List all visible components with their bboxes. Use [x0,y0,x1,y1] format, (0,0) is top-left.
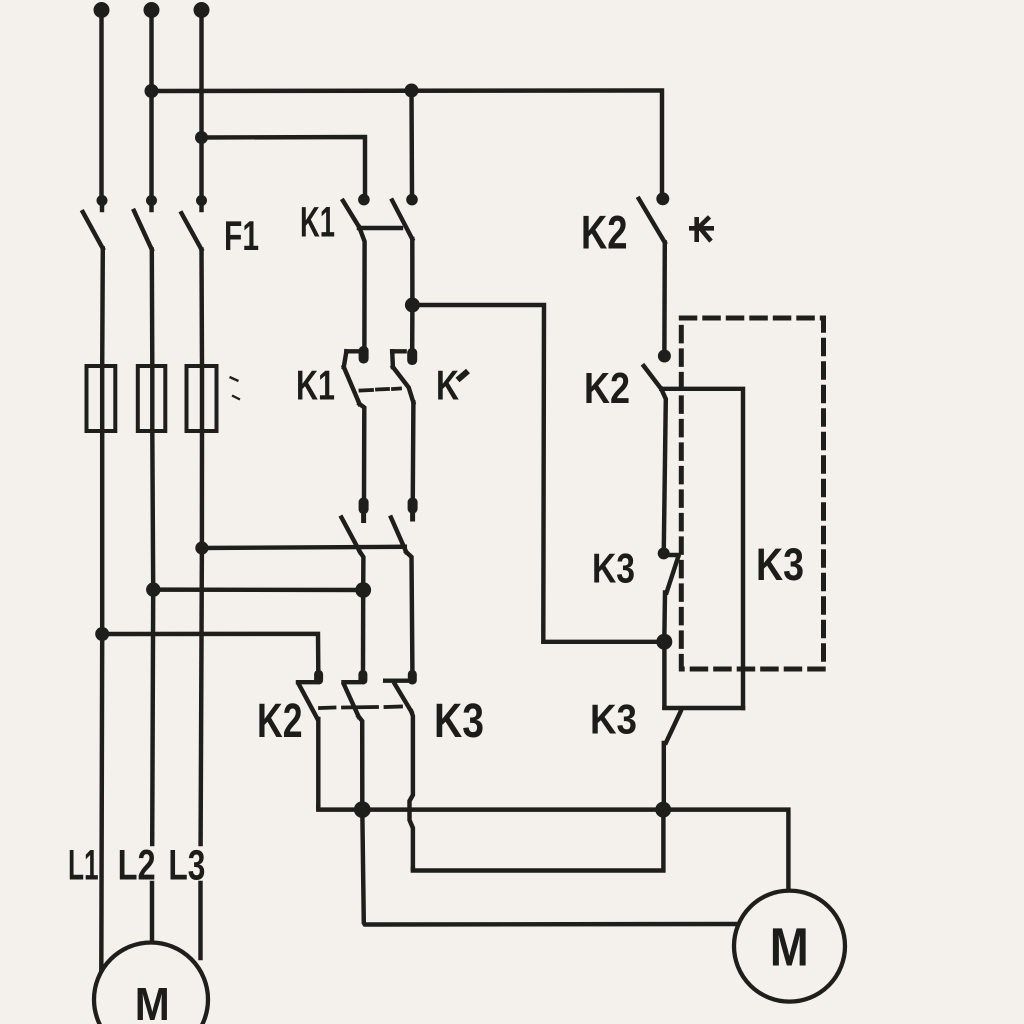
wire L1 top [99,12,103,196]
svg-text:K3: K3 [756,539,804,590]
wire interlock right branch [661,389,743,708]
mechanical link row2 (dashed) [361,389,401,391]
wire K1 row1 right down [410,239,415,305]
contact K1 row1 left node [358,194,370,206]
contact K' row2 bar [392,349,404,353]
junction node L3 tap [195,541,208,554]
contact K2 row2 right node [658,350,671,363]
contact K1 row2 bar [346,349,360,353]
contact K1 row1 crossbar [359,226,401,230]
junction node L2 tap [146,582,160,596]
wire row3 left to bottom contact [361,590,366,670]
junction node rail1 / motor branch [354,801,371,818]
motor M2 circle [734,891,845,1002]
contact K2 bottom pole1 bar [298,680,315,684]
L1 phase terminal [94,2,110,18]
contact K' row2 bottom capsule [408,498,418,514]
junction node L2 / control bus [145,84,159,98]
wire K1 row1 left down [359,227,364,346]
wire bottom pole3 down with hop over rail [410,712,413,870]
wire bottom pole1 down [316,719,320,808]
svg-text:K2: K2 [584,364,630,413]
contact K' row2 hook [390,351,395,367]
fuse F1 pole 2 body [150,366,154,431]
wire rail 1 [318,806,788,892]
contact K' row2 blade [393,367,414,403]
wire L3 tap horizontal [202,547,405,548]
wire top bus to K1 right pole [409,91,414,196]
fuse F1 pole 1 body [100,366,104,431]
contact K1 row2 bottom capsule [359,498,369,515]
contact K3 lower bar [664,706,743,710]
wire L1 switch to fuse [100,249,105,367]
svg-text:K3: K3 [434,695,484,748]
contact K3 right bar [664,553,679,557]
wire L2 to motor M1 lower [150,883,154,950]
svg-text:L3: L3 [168,842,205,890]
wire K3 right down [662,593,667,635]
contact K1 row2 blade [344,367,360,404]
contact K2 top blade [639,199,665,243]
svg-text:K3: K3 [592,545,635,592]
contact K2 bottom pole2 capsule [358,670,367,685]
wire rail 2 [413,812,664,871]
wire second bus from L3 [202,137,366,196]
motor M1 circle [94,943,208,1024]
contact K3 bottom pole3 capsule [408,670,417,685]
contact K' row2 top capsule [407,348,417,365]
contact K1 row2 top capsule left [359,346,369,364]
wire L3 below fuse [200,431,205,548]
svg-text:K: K [436,362,459,409]
contact K2 row2 right blade [644,366,662,389]
contact K2 bottom pole1 capsule [314,670,323,685]
junction node B [656,634,672,650]
L3 phase terminal [194,2,210,18]
wire node B down [662,642,666,708]
wire L2 top [149,12,153,196]
wire bottom pole2 down [359,717,363,807]
wire L2 tap horizontal [153,587,363,592]
wire L1 to motor M1 [99,634,104,975]
svg-text:L1: L1 [68,842,99,890]
wire L3 top [199,12,203,196]
svg-text:K1: K1 [300,200,335,247]
wire node A to K' capsule [410,305,415,348]
wire L1 tap horizontal [102,634,318,670]
contact K1 row2 hook [344,351,347,367]
contact K2 top right node [656,192,669,205]
mechanical link bottom row (dashed) [320,707,401,709]
wire K3 lower down [662,743,666,806]
svg-text:M: M [135,978,170,1024]
junction node L1 tap [95,627,109,641]
svg-text:F1: F1 [224,212,259,259]
wire K1 row2 down [360,404,365,497]
wire L3 to motor M1 lower [198,883,202,958]
junction node A (right pole to interlock wire) [405,298,420,313]
disconnect switch pole 1 (L1) blade [83,212,103,249]
L2 phase terminal [144,2,160,18]
dashed enclosure K3 [681,318,823,669]
wire L3 switch to fuse [199,250,204,367]
wire top control bus [152,91,663,197]
contact K2 bottom pole1 blade [299,685,317,719]
wire row3 right down [406,552,412,670]
contact K2 bottom pole2 bar [344,680,360,684]
junction node L3 / second bus [195,131,208,144]
contact K3 right blade [667,557,679,593]
wire row3 left down [360,552,363,590]
fuse F1 pole 3 body [200,366,204,431]
wire L1 below fuse [100,431,104,634]
contact row3 right blade [391,518,406,553]
contact K1 row1 right node [406,194,418,206]
contact K3 bottom pole3 bar [385,678,408,682]
contact row3 left blade [342,518,361,553]
disconnect switch pole 2 (L2) blade [134,211,152,250]
wire rail 3 to motor M2 [362,810,737,925]
svg-text:L2: L2 [118,842,156,890]
wire L2 switch to fuse [150,250,155,367]
wire K2 top to K2 row2 [662,243,667,350]
contact K2 bottom pole2 blade [344,685,359,717]
contact K3 lower blade [666,712,681,743]
contact K1 row1 right blade [392,201,412,240]
stray mark 1 [230,377,239,381]
contact K1 row1 left blade [343,201,359,228]
disconnect switch pole 3 (L3) node [196,195,207,206]
svg-text:K1: K1 [296,362,335,409]
icon crossed K [689,217,714,242]
wire L3 to motor M1 upper [201,548,202,844]
wire K2 row2 blade down [661,389,666,548]
disconnect switch pole 3 (L3) blade [182,213,202,249]
wire L2 below fuse [150,431,155,590]
junction node top bus / K1 coil branch [405,84,419,98]
junction node L2-tap / row3 [355,582,371,598]
contact K3 bottom pole3 blade [395,684,412,712]
svg-text:K2: K2 [581,206,628,259]
junction node rail1/K3 [655,802,671,818]
wire L2 to motor M1 upper [152,590,153,844]
disconnect switch pole 2 (L2) node [146,195,157,206]
svg-text:K3: K3 [590,696,637,743]
svg-text:K2: K2 [257,695,303,748]
wire K' row2 down [411,403,416,498]
wire interlock link from node A [412,305,656,642]
svg-text:M: M [770,918,809,978]
disconnect switch pole 1 (L1) node [97,195,108,206]
contact K3 right node [658,547,670,559]
stray mark 2 [232,396,240,400]
